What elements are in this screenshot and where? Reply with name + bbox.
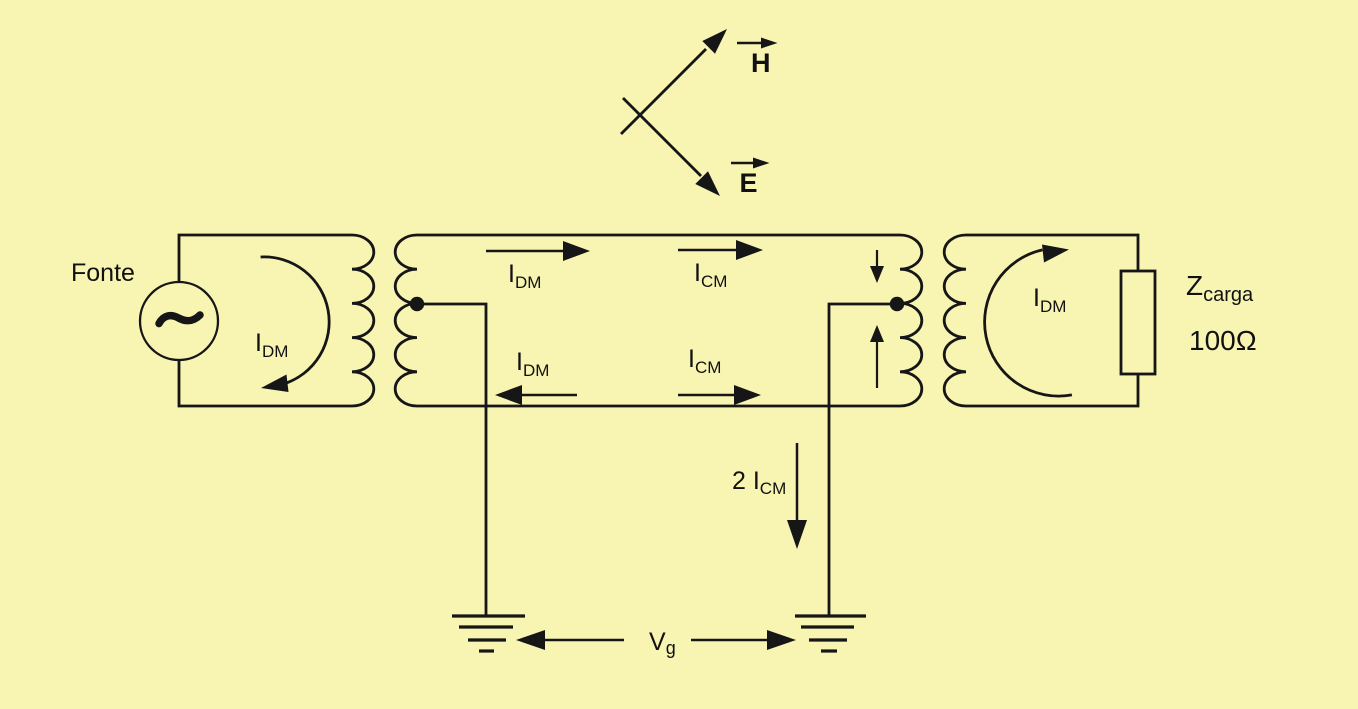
wire: right center-tap to ground [829,304,897,616]
inductor L2 secondary (bumps left) [944,235,966,406]
svg-text:E: E [740,168,758,198]
arrow: IDM top (right-pointing) [486,241,590,261]
wire: middle top rail [417,234,900,237]
arrow: small up arrow at right transformer [870,325,884,388]
resistor Zcarga body [1121,271,1155,374]
label H with vector bar [737,38,778,79]
wire: middle bottom rail [417,405,900,408]
node: left transformer center tap dot [410,297,424,311]
arrow: Vg left [516,630,624,650]
arrow: ICM bottom (right-pointing) [678,385,761,405]
arrow: H field vector [621,29,727,134]
arrow: small down arrow at right transformer [870,250,884,283]
wire: load loop top [966,235,1138,271]
ground symbol right [795,616,866,651]
arrow: IDM circulating arc (source loop) [261,257,330,392]
svg-text:H: H [751,48,771,78]
wire [179,360,352,406]
arrow: IDM circulating arc (load loop) [985,245,1072,397]
arrow: Vg right [691,630,796,650]
ac source sine symbol [159,315,200,324]
wire: load loop bottom [966,374,1138,406]
svg-text:100Ω: 100Ω [1189,325,1257,356]
inductor L2 primary (right transformer, bumps right) [900,235,922,406]
node: right transformer center tap dot [890,297,904,311]
label E with vector bar [731,158,770,199]
svg-text:Fonte: Fonte [71,259,135,287]
arrow: IDM bottom (left-pointing) [495,385,577,405]
inductor L1 primary (left transformer, bumps right) [352,235,374,406]
inductor L1 secondary (bumps left) [395,235,417,406]
arrow: 2 ICM down [787,443,807,549]
wire: left center-tap to ground [417,304,486,616]
ground symbol left [452,616,525,651]
wire: source loop left/top/bottom [179,235,352,282]
arrow: E field vector [623,98,720,196]
ac source V1 (Fonte) circle [140,282,218,360]
arrow: ICM top (right-pointing) [678,240,763,260]
